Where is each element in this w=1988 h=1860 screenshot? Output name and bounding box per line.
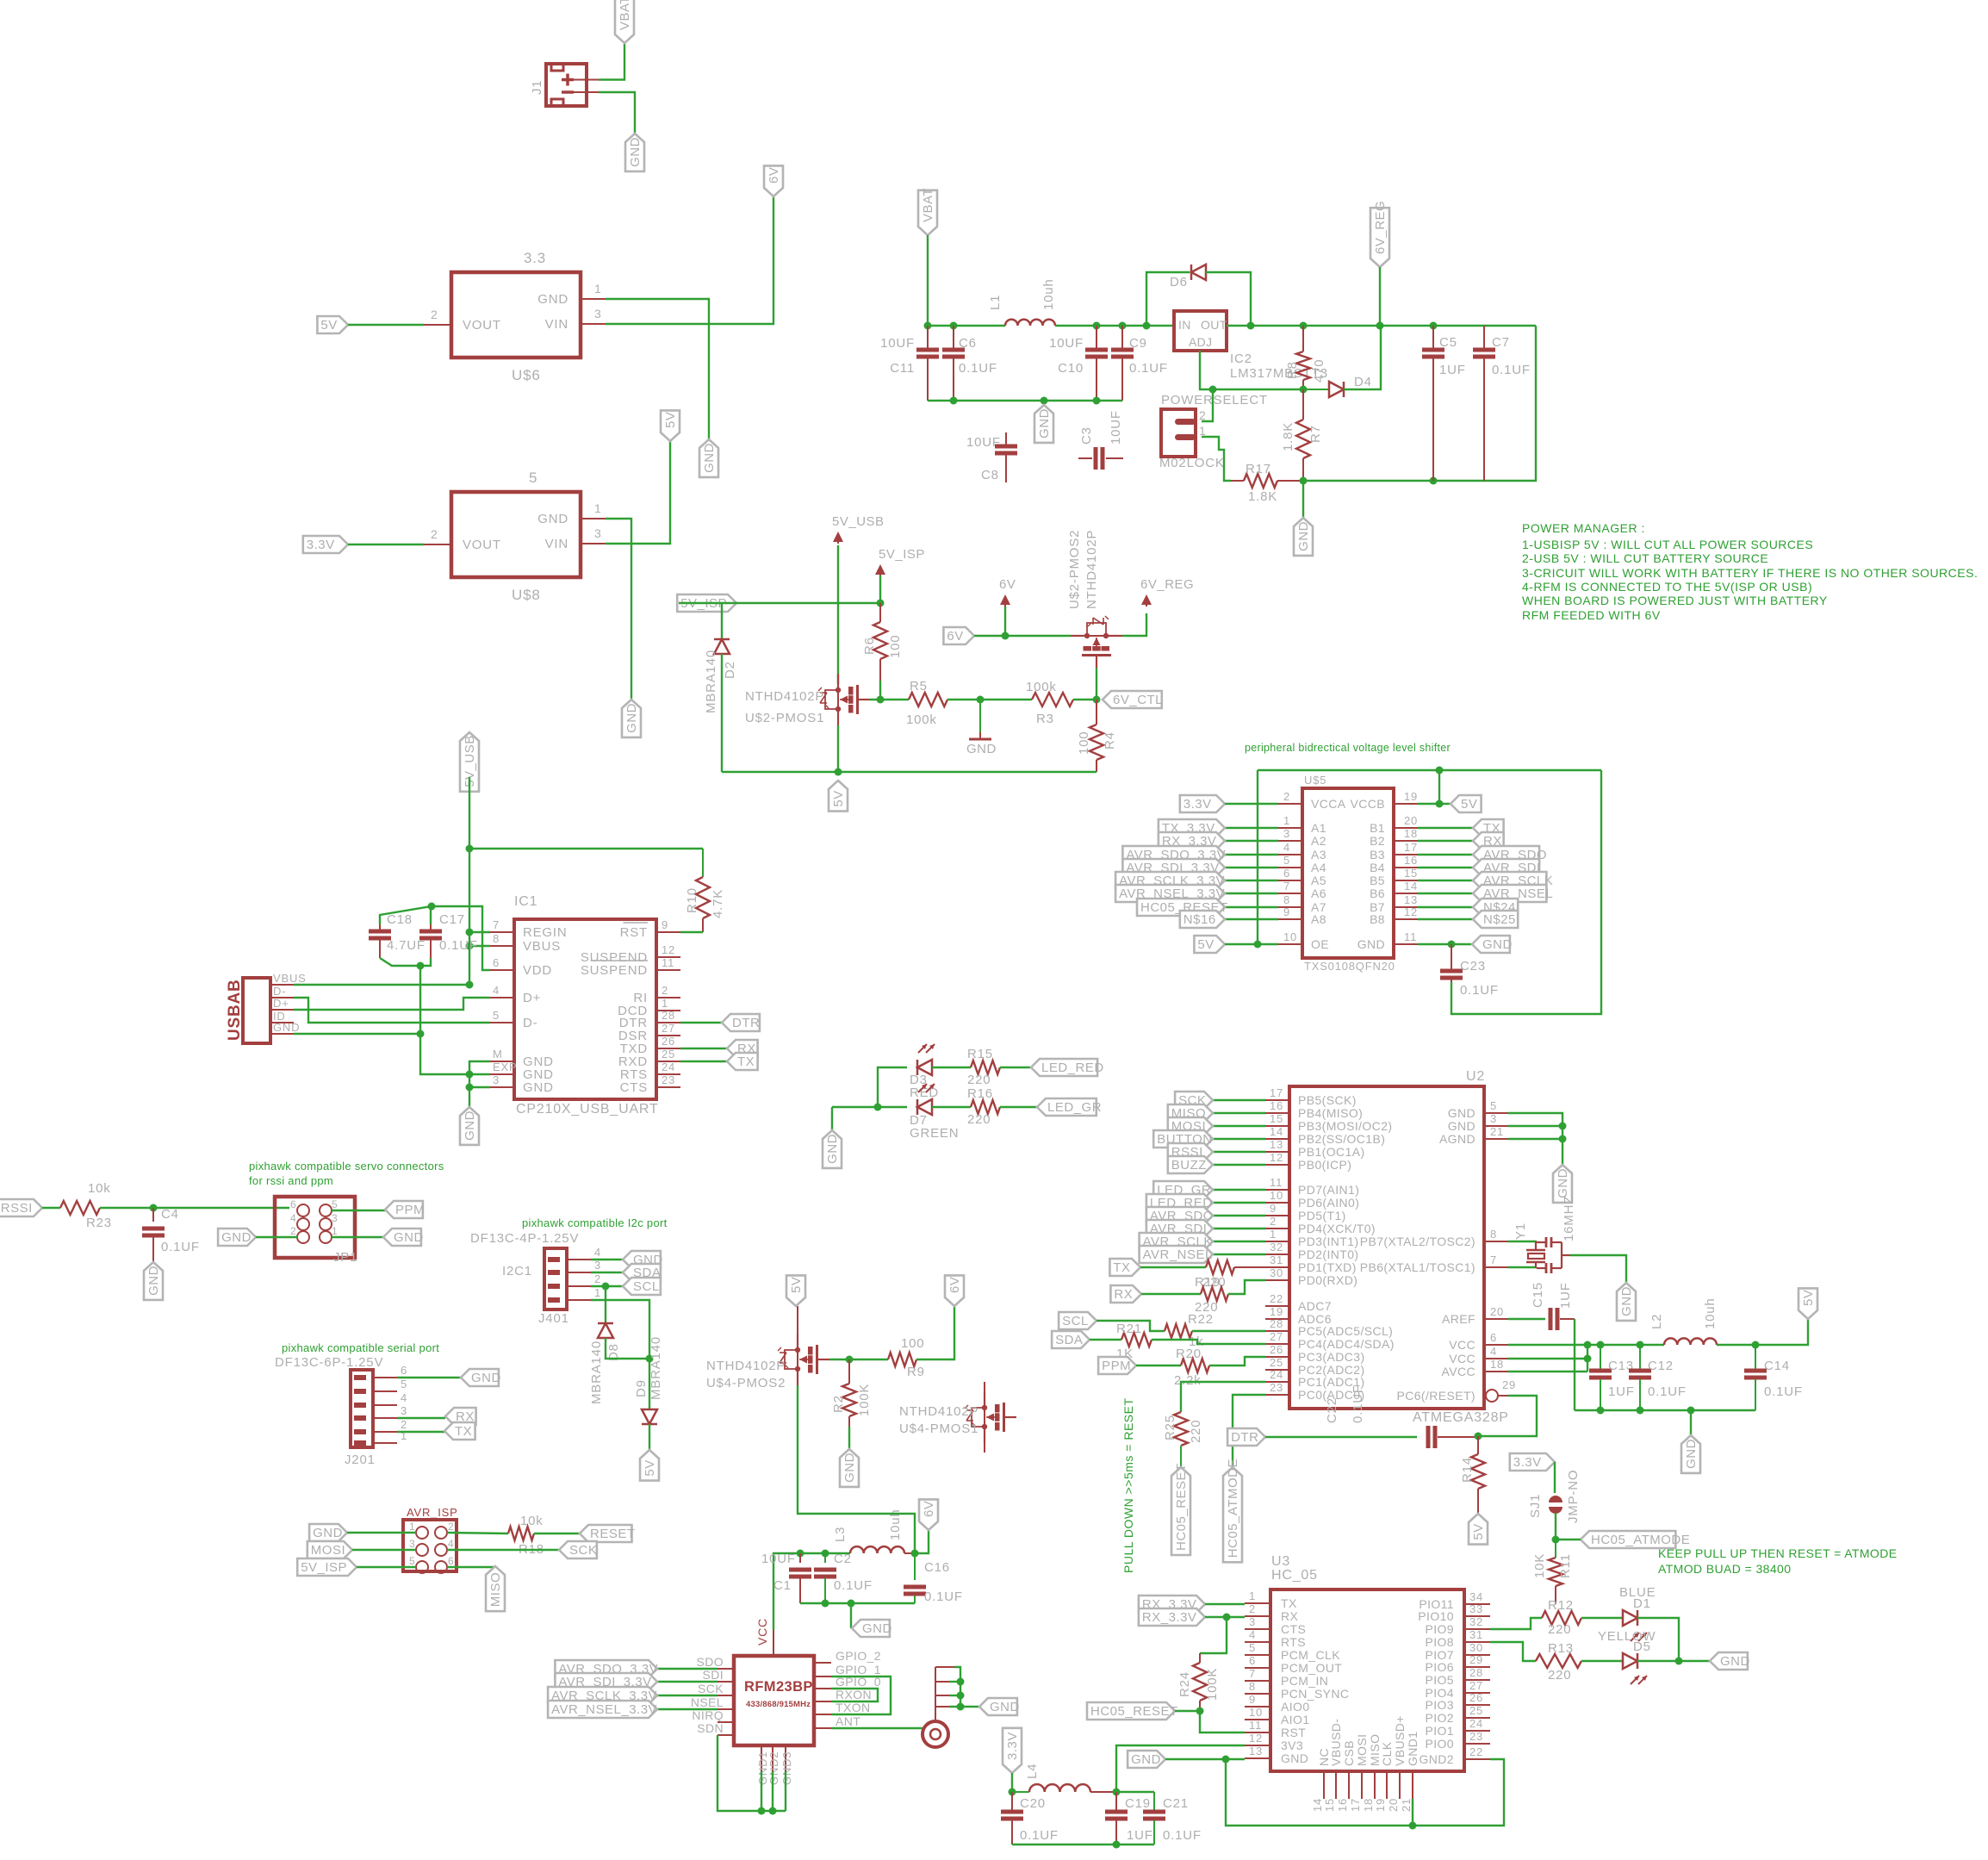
svg-text:5: 5 bbox=[409, 1555, 415, 1567]
R17 name bbox=[1246, 462, 1271, 476]
svg-text:R21: R21 bbox=[1116, 1322, 1142, 1336]
svg-text:220: 220 bbox=[1548, 1668, 1571, 1683]
svg-text:KEEP PULL UP THEN RESET = ATMO: KEEP PULL UP THEN RESET = ATMODE bbox=[1658, 1546, 1897, 1560]
comment level shifter title bbox=[1245, 742, 1451, 754]
R22 value 220 bbox=[1195, 1300, 1218, 1315]
svg-text:MOSI: MOSI bbox=[1355, 1734, 1369, 1766]
junction RX R24 bbox=[1223, 1614, 1231, 1621]
R6 value 100 bbox=[888, 635, 903, 658]
wire U2 agnd bbox=[1508, 1138, 1562, 1140]
net flag HC05_RESET vertical bbox=[1171, 1463, 1190, 1555]
svg-text:C23: C23 bbox=[1460, 959, 1486, 974]
R13 name bbox=[1548, 1641, 1574, 1656]
wire R3 to 6V_CTL bbox=[1073, 699, 1097, 700]
R25 value 220 bbox=[1189, 1420, 1203, 1443]
svg-text:PB7(XTAL2/TOSC2): PB7(XTAL2/TOSC2) bbox=[1360, 1235, 1475, 1248]
U2 pin 11 PD7(AIN1) bbox=[1265, 1176, 1359, 1197]
svg-text:J401: J401 bbox=[538, 1311, 569, 1326]
U$2-PMOS2 name bbox=[1067, 530, 1082, 609]
svg-text:12: 12 bbox=[1249, 1732, 1263, 1745]
junction OUT D6 bbox=[1247, 322, 1255, 330]
junction C1 top bbox=[797, 1550, 805, 1558]
net flag AVR_SDO_3.3V at RFM bbox=[555, 1660, 658, 1677]
wire Dminus to IC1 bbox=[294, 998, 490, 1023]
svg-text:8: 8 bbox=[1490, 1228, 1497, 1241]
U$4-PMOS1 name bbox=[899, 1421, 978, 1436]
net flag RX_3.3V to U3 RX bbox=[1139, 1608, 1205, 1626]
svg-text:AIO0: AIO0 bbox=[1281, 1700, 1310, 1714]
svg-text:BUZZ: BUZZ bbox=[1171, 1158, 1207, 1173]
svg-text:AGND: AGND bbox=[1439, 1132, 1475, 1146]
svg-text:5V: 5V bbox=[789, 1277, 804, 1293]
capacitor C17 bbox=[419, 924, 442, 958]
svg-text:PULL DOWN >>5ms = RESET: PULL DOWN >>5ms = RESET bbox=[1121, 1397, 1135, 1573]
wire R24 top path bbox=[1200, 1617, 1227, 1653]
U2 pin 6 VCC bbox=[1449, 1331, 1508, 1352]
svg-text:TXON: TXON bbox=[836, 1701, 871, 1714]
junction vcc a bbox=[1584, 1341, 1592, 1349]
svg-text:23: 23 bbox=[1270, 1381, 1283, 1394]
C17 value 0.1UF bbox=[439, 938, 478, 953]
wire EXP gnd bbox=[469, 1073, 490, 1075]
svg-text:2-USB 5V : WILL CUT BATTERY SO: 2-USB 5V : WILL CUT BATTERY SOURCE bbox=[1522, 551, 1768, 565]
svg-text:JMP-NO: JMP-NO bbox=[1566, 1470, 1581, 1523]
wire BUTTON to U2 bbox=[1213, 1138, 1265, 1140]
IC1 pin 5 D- bbox=[490, 1009, 537, 1030]
D1 value BLUE bbox=[1619, 1585, 1656, 1600]
I2C1 pin 3 bbox=[567, 1259, 601, 1272]
svg-text:10: 10 bbox=[1283, 930, 1297, 943]
junction gnd flag rfm bbox=[848, 1600, 855, 1608]
svg-text:PB1(OC1A): PB1(OC1A) bbox=[1298, 1145, 1365, 1159]
svg-text:0.1UF: 0.1UF bbox=[1648, 1384, 1687, 1399]
R21 value 1k bbox=[1189, 1334, 1203, 1349]
svg-text:4: 4 bbox=[1283, 841, 1290, 854]
junction usb gnd bbox=[417, 1030, 425, 1038]
power flag 5V rail bbox=[829, 781, 848, 812]
solder jumper SJ1 JMP-NO bbox=[1549, 1496, 1562, 1514]
svg-text:6V_CTL: 6V_CTL bbox=[1113, 693, 1163, 707]
U2 pin 27 PC4(ADC4/SDA) bbox=[1265, 1330, 1395, 1351]
svg-text:3: 3 bbox=[594, 1259, 601, 1272]
wire 5visp to isp bbox=[357, 1566, 416, 1568]
net flag 5V_ISP bbox=[677, 594, 736, 612]
svg-text:LED_GR: LED_GR bbox=[1047, 1100, 1102, 1115]
junction shield 3 bbox=[957, 1692, 965, 1700]
ground flag GND at C4 bbox=[144, 1262, 163, 1300]
C21 value 0.1UF bbox=[1163, 1828, 1202, 1843]
IC1 pin 8 VBUS bbox=[490, 932, 561, 954]
svg-text:peripheral bidrectical voltage: peripheral bidrectical voltage level shi… bbox=[1245, 742, 1451, 754]
ground flag GND vcc filter bbox=[1681, 1435, 1700, 1473]
svg-text:WHEN BOARD IS POWERED JUST WIT: WHEN BOARD IS POWERED JUST WITH BATTERY bbox=[1522, 594, 1828, 607]
svg-text:AVR_ISP: AVR_ISP bbox=[407, 1506, 458, 1519]
wire gnd flag to pin13 bbox=[1165, 1758, 1245, 1760]
svg-text:4: 4 bbox=[448, 1538, 454, 1550]
svg-text:5V: 5V bbox=[1801, 1290, 1816, 1306]
wire shield 3 bbox=[949, 1695, 960, 1696]
junction gnd C12 bbox=[1637, 1407, 1644, 1415]
R18 value 10k bbox=[520, 1514, 544, 1528]
inductor L3 bbox=[850, 1546, 904, 1553]
power flag 6V at R9 bbox=[945, 1275, 964, 1306]
svg-text:R6: R6 bbox=[862, 637, 877, 655]
U3 pin 34 PIO11 bbox=[1419, 1590, 1490, 1611]
svg-text:HC05_ATMODE: HC05_ATMODE bbox=[1226, 1459, 1240, 1558]
svg-text:5: 5 bbox=[1490, 1099, 1497, 1112]
svg-text:27: 27 bbox=[1469, 1679, 1483, 1692]
R23 name bbox=[86, 1216, 112, 1230]
svg-text:1: 1 bbox=[594, 1286, 601, 1299]
svg-text:C4: C4 bbox=[161, 1207, 179, 1222]
net flag RX at IC1 bbox=[727, 1040, 758, 1057]
junction L4 right bbox=[1113, 1788, 1121, 1796]
wire U$5 to TX bbox=[1418, 827, 1473, 829]
net flag 5V at VCCB bbox=[1451, 795, 1482, 812]
capacitor C7 bbox=[1473, 326, 1495, 481]
junction led gnd bbox=[874, 1104, 882, 1111]
svg-text:22: 22 bbox=[1270, 1292, 1283, 1305]
wire gnd13 down bbox=[1226, 1759, 1504, 1826]
svg-text:LED_RED: LED_RED bbox=[1041, 1061, 1104, 1075]
wire D8 bottom bbox=[606, 1338, 649, 1359]
svg-text:1UF: 1UF bbox=[1127, 1828, 1153, 1843]
wire AVR_SDI_3.3V to U$5 bbox=[1225, 867, 1278, 868]
USBAB pin GND bbox=[270, 1021, 300, 1034]
net flag RX bbox=[1473, 832, 1504, 849]
svg-text:MBRA140: MBRA140 bbox=[649, 1336, 663, 1400]
svg-text:7: 7 bbox=[1283, 880, 1290, 893]
IC1 pin 3 GND bbox=[490, 1073, 554, 1095]
U$5 pin 18 B2 bbox=[1370, 827, 1418, 848]
transistor U$2-PMOS2 NTHD4102P bbox=[1071, 616, 1122, 668]
svg-text:PCN_SYNC: PCN_SYNC bbox=[1281, 1687, 1349, 1701]
antenna connector bbox=[923, 1721, 948, 1747]
svg-text:R2: R2 bbox=[831, 1395, 846, 1413]
svg-text:100K: 100K bbox=[857, 1384, 872, 1416]
net flag SDA bbox=[1052, 1331, 1090, 1348]
C21 name bbox=[1163, 1796, 1189, 1811]
wire 5V_USB down bbox=[837, 545, 839, 684]
J201 pad 1 bbox=[354, 1440, 366, 1446]
svg-text:PB5(SCK): PB5(SCK) bbox=[1298, 1093, 1357, 1107]
U2 pin 5 GND bbox=[1448, 1099, 1508, 1120]
U$6 designator bbox=[512, 367, 541, 383]
L3 name bbox=[833, 1527, 848, 1542]
U3 pin 2 RX bbox=[1245, 1602, 1299, 1623]
led D5 YELLOW bbox=[1623, 1653, 1647, 1684]
svg-text:15: 15 bbox=[1270, 1112, 1283, 1125]
svg-text:10UF: 10UF bbox=[966, 435, 1001, 450]
svg-text:VBAT: VBAT bbox=[618, 0, 632, 30]
resistor R13 220 bbox=[1536, 1654, 1581, 1668]
wire L1 to IC2 IN bbox=[1055, 325, 1174, 327]
svg-text:5V_ISP: 5V_ISP bbox=[879, 547, 925, 562]
power flag VBAT bbox=[615, 0, 634, 43]
USBAB pin VBUS bbox=[270, 972, 307, 985]
resistor R4 100 bbox=[1090, 700, 1103, 772]
net flag 6V bbox=[943, 627, 974, 644]
regulator IC2 LM317 box bbox=[1174, 311, 1227, 351]
svg-text:PIO9: PIO9 bbox=[1425, 1622, 1454, 1636]
U3 pin 10 AIO1 bbox=[1245, 1706, 1310, 1726]
svg-text:3: 3 bbox=[1490, 1112, 1497, 1125]
wire DTR bbox=[680, 1022, 722, 1023]
C7 value 0.1UF bbox=[1492, 363, 1531, 377]
svg-text:25: 25 bbox=[1469, 1704, 1483, 1717]
wire R13 to D5 bbox=[1581, 1660, 1623, 1662]
wire J201 gnd bbox=[397, 1377, 461, 1378]
D3 name bbox=[910, 1073, 928, 1087]
power flag 5V_USB at IC1 bbox=[460, 732, 479, 792]
junction R5 R3 gnd bbox=[977, 696, 985, 704]
SJ1 value JMP-NO bbox=[1566, 1470, 1581, 1523]
C23 value 0.1UF bbox=[1460, 983, 1499, 998]
svg-text:ADJ: ADJ bbox=[1189, 335, 1212, 349]
wire D2 to 5V rail bbox=[721, 654, 723, 772]
svg-text:10UF: 10UF bbox=[761, 1552, 796, 1566]
U3 pin 31 PIO8 bbox=[1425, 1628, 1490, 1649]
svg-text:1-USBISP 5V : WILL CUT ALL POW: 1-USBISP 5V : WILL CUT ALL POWER SOURCES bbox=[1522, 538, 1813, 551]
net flag MOSI at U2 bbox=[1168, 1117, 1213, 1135]
capacitor C3 bbox=[1078, 447, 1123, 470]
R18 name bbox=[519, 1542, 544, 1557]
U3 pin 33 PIO10 bbox=[1418, 1602, 1490, 1623]
transistor U$4-PMOS2 NTHD4102P bbox=[778, 1334, 829, 1385]
net flag TX at IC1 bbox=[727, 1053, 758, 1070]
wire 6V arrow stem bbox=[1004, 607, 1006, 636]
svg-text:A5: A5 bbox=[1311, 874, 1326, 887]
svg-text:MBRA140: MBRA140 bbox=[704, 650, 718, 713]
svg-text:10K: 10K bbox=[1532, 1553, 1547, 1578]
ground flag GND at J1 bbox=[625, 134, 644, 171]
R8 value 470 bbox=[1312, 359, 1326, 383]
wire cap tops bbox=[380, 906, 490, 970]
wire res to PD0 bbox=[1228, 1280, 1265, 1294]
wire IN to D6 bbox=[1146, 272, 1190, 326]
svg-text:0.1UF: 0.1UF bbox=[1492, 363, 1531, 377]
wire AVR_NSEL_3.3V to RFM bbox=[657, 1708, 718, 1710]
net flag 6V_CTL bbox=[1103, 691, 1163, 708]
R3 value 100k bbox=[1026, 680, 1057, 694]
IC1 pin 2 RI bbox=[633, 984, 680, 1005]
svg-text:POWER MANAGER :: POWER MANAGER : bbox=[1522, 521, 1645, 535]
U3 pin 20 VBUSD+ bbox=[1387, 1715, 1407, 1812]
wire MISO to U2 bbox=[1213, 1112, 1265, 1114]
svg-text:IN: IN bbox=[1178, 318, 1191, 332]
svg-text:3: 3 bbox=[594, 526, 602, 540]
svg-text:D+: D+ bbox=[273, 997, 289, 1010]
wire pmos drain junction bbox=[829, 1359, 888, 1360]
U3 designator bbox=[1271, 1554, 1290, 1569]
U$2-PMOS2 value bbox=[1084, 530, 1099, 609]
svg-text:220: 220 bbox=[1189, 1420, 1203, 1443]
wire shield to gnd bbox=[960, 1706, 979, 1708]
svg-text:16: 16 bbox=[1270, 1099, 1283, 1112]
C14 value 0.1UF bbox=[1764, 1384, 1803, 1399]
svg-text:R4: R4 bbox=[1103, 731, 1117, 750]
svg-text:2: 2 bbox=[1270, 1215, 1277, 1228]
svg-text:RST: RST bbox=[620, 925, 648, 940]
wire bus right down bbox=[1451, 770, 1601, 1014]
junction 5V_ISP R6 bbox=[877, 600, 885, 607]
IC1 pin 27 DSR bbox=[618, 1022, 680, 1043]
svg-text:PIO8: PIO8 bbox=[1425, 1635, 1454, 1649]
JP1 jp1 pad3 bbox=[320, 1218, 332, 1230]
svg-text:2: 2 bbox=[448, 1521, 454, 1533]
net flag N$16 bbox=[1180, 911, 1225, 928]
power arrow 5V_USB bbox=[832, 514, 885, 544]
RFM23BP name bbox=[744, 1679, 813, 1695]
wire U2 gnd5 bbox=[1508, 1113, 1562, 1165]
svg-text:PD6(AIN0): PD6(AIN0) bbox=[1298, 1196, 1359, 1210]
svg-text:U$2-PMOS2: U$2-PMOS2 bbox=[1067, 530, 1082, 609]
svg-text:10k: 10k bbox=[520, 1514, 544, 1528]
C2 value 0.1UF bbox=[834, 1578, 873, 1593]
svg-text:27: 27 bbox=[662, 1022, 675, 1035]
ground flag GND left JP1 bbox=[218, 1229, 256, 1246]
svg-text:C16: C16 bbox=[924, 1560, 950, 1575]
C13 name bbox=[1608, 1359, 1634, 1373]
wire 5V_ISP arrow stem bbox=[879, 575, 881, 603]
svg-text:B8: B8 bbox=[1370, 912, 1385, 926]
I2C1 value DF13C-4P-1.25V bbox=[470, 1231, 579, 1246]
svg-text:21: 21 bbox=[1490, 1125, 1504, 1138]
U$8 pin 3 VIN bbox=[545, 526, 606, 551]
wire 5VUSB to REGIN bbox=[469, 931, 490, 933]
svg-text:100k: 100k bbox=[906, 712, 937, 727]
svg-text:R12: R12 bbox=[1548, 1598, 1574, 1613]
power flag 5V at L2 bbox=[1799, 1288, 1817, 1319]
svg-text:5: 5 bbox=[401, 1378, 407, 1390]
ground flag GND filter bbox=[1034, 405, 1053, 443]
junction gnd1 bbox=[758, 1807, 766, 1815]
power arrow 6V bbox=[999, 577, 1016, 607]
R20 name bbox=[1176, 1347, 1202, 1361]
wire U$5 to AVR_SCLK bbox=[1418, 880, 1473, 881]
D5 value YELLOW bbox=[1598, 1629, 1656, 1644]
svg-text:B3: B3 bbox=[1370, 848, 1385, 862]
antenna shield pins bbox=[935, 1667, 954, 1721]
U3 pin 1 TX bbox=[1245, 1589, 1297, 1610]
svg-text:5: 5 bbox=[332, 1198, 338, 1210]
JP1 jp1 pad2 bbox=[297, 1231, 309, 1243]
svg-text:GND: GND bbox=[825, 1134, 840, 1164]
SJ1 name bbox=[1528, 1494, 1543, 1518]
inductor L4 bbox=[1012, 1784, 1116, 1792]
svg-text:13: 13 bbox=[1404, 893, 1418, 906]
R16 value 220 bbox=[967, 1112, 991, 1127]
svg-text:9: 9 bbox=[1249, 1693, 1256, 1706]
svg-text:R11: R11 bbox=[1558, 1553, 1573, 1578]
IC1 pin 12 SUSPEND bbox=[581, 943, 680, 965]
capacitor C21 bbox=[1143, 1792, 1165, 1844]
svg-text:C17: C17 bbox=[439, 912, 465, 927]
R5 value 100k bbox=[906, 712, 937, 727]
svg-text:OE: OE bbox=[1311, 937, 1329, 951]
junction OUT 6V_REG bbox=[1376, 322, 1384, 330]
net flag LED_GR bbox=[1037, 1098, 1102, 1116]
U3 pin 9 AIO0 bbox=[1245, 1693, 1310, 1714]
resistor R21 sda 1K bbox=[1121, 1333, 1152, 1347]
svg-text:28: 28 bbox=[1270, 1317, 1283, 1330]
svg-text:TX: TX bbox=[1113, 1260, 1130, 1275]
svg-text:3: 3 bbox=[493, 1073, 500, 1086]
junction gnd1 pin bbox=[1409, 1822, 1417, 1830]
R21 value 1K bbox=[1116, 1347, 1134, 1361]
resistor R6 100 bbox=[873, 603, 887, 681]
wire U2 gnd3 bbox=[1508, 1125, 1562, 1127]
U3 pin 27 PIO4 bbox=[1425, 1679, 1490, 1700]
U$5 pin 5 A4 bbox=[1278, 854, 1326, 874]
net flag 3.3V at SJ1 bbox=[1510, 1453, 1555, 1471]
svg-text:100K: 100K bbox=[1205, 1668, 1220, 1701]
AVR_ISP pad bbox=[435, 1561, 447, 1573]
svg-text:VIN: VIN bbox=[545, 537, 568, 551]
svg-text:100k: 100k bbox=[1026, 680, 1057, 694]
diode D6 bbox=[1191, 264, 1206, 280]
svg-text:VCC: VCC bbox=[1449, 1338, 1475, 1352]
J1 minus glyph bbox=[562, 90, 574, 94]
svg-text:PB4(MISO): PB4(MISO) bbox=[1298, 1106, 1363, 1120]
wire R6 to gate bbox=[879, 681, 881, 700]
R25 name bbox=[1163, 1415, 1177, 1440]
wire gnd1 down bbox=[761, 1771, 762, 1811]
svg-text:DF13C-6P-1.25V: DF13C-6P-1.25V bbox=[275, 1355, 383, 1370]
wire U$8 VIN to 5V bbox=[606, 441, 670, 544]
junction gnd13 bbox=[1222, 1756, 1230, 1764]
R16 name bbox=[967, 1086, 993, 1101]
svg-text:C8: C8 bbox=[981, 468, 999, 482]
USBAB pin D+ bbox=[270, 997, 294, 1010]
svg-text:U$5: U$5 bbox=[1304, 774, 1326, 787]
svg-text:GND: GND bbox=[523, 1080, 554, 1095]
wire adj divider gnd bbox=[1302, 481, 1304, 518]
svg-text:HC05_RESET: HC05_RESET bbox=[1174, 1463, 1189, 1551]
svg-text:20: 20 bbox=[1490, 1305, 1504, 1318]
svg-text:MISO: MISO bbox=[488, 1572, 503, 1607]
svg-text:GND: GND bbox=[1296, 521, 1311, 551]
resistor R2 100K bbox=[842, 1359, 856, 1427]
wire VCC rail bbox=[1508, 1344, 1664, 1346]
U3 pin 13 GND bbox=[1245, 1745, 1308, 1765]
L3 right lead bbox=[904, 1552, 915, 1554]
C19 value 1UF bbox=[1127, 1828, 1153, 1843]
U$8 designator bbox=[512, 587, 541, 603]
wire SJ1 to junction bbox=[1555, 1513, 1556, 1540]
svg-text:C20: C20 bbox=[1020, 1796, 1046, 1811]
transistor U$4-PMOS1 NTHD4102P bbox=[965, 1391, 1016, 1443]
wire bus to VCCB bbox=[1438, 770, 1440, 804]
wire 3.3V to U$8 VOUT bbox=[348, 544, 424, 545]
svg-text:pixhawk compatible I2c port: pixhawk compatible I2c port bbox=[522, 1216, 668, 1229]
svg-text:33: 33 bbox=[1469, 1602, 1483, 1615]
svg-text:4.7K: 4.7K bbox=[711, 889, 725, 918]
svg-text:10UF: 10UF bbox=[880, 336, 915, 351]
wire U$5 to RX bbox=[1418, 840, 1473, 842]
net flag TX_3.3V bbox=[1159, 819, 1225, 837]
ground flag GND right of U2 bbox=[1553, 1165, 1572, 1203]
svg-text:6: 6 bbox=[1249, 1654, 1256, 1667]
wire gnd to isp bbox=[347, 1532, 416, 1533]
U2 pin 25 PC2(ADC2) bbox=[1265, 1356, 1365, 1377]
svg-text:GREEN: GREEN bbox=[910, 1126, 959, 1141]
U3 pin 3 CTS bbox=[1245, 1615, 1306, 1636]
net flag AVR_SDO at U2 bbox=[1146, 1207, 1214, 1224]
U$5 pin 6 A5 bbox=[1278, 867, 1326, 887]
U2 pin 3 GND bbox=[1448, 1112, 1508, 1133]
U$5 pin 4 A3 bbox=[1278, 841, 1326, 862]
